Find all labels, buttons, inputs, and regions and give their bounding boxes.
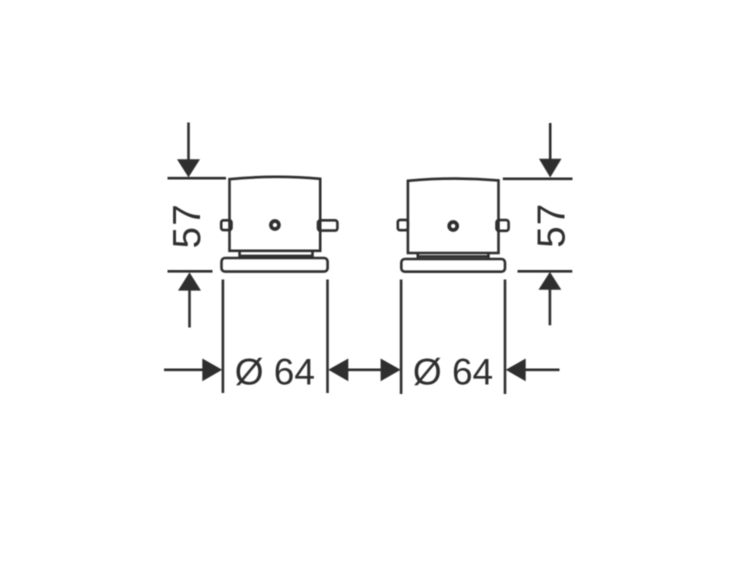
svg-text:Ø 64: Ø 64 bbox=[413, 352, 493, 393]
right handle neck left bbox=[416, 253, 419, 259]
left bottom arrow line bbox=[188, 290, 191, 328]
right handle neck bottom bbox=[418, 255, 489, 258]
left handle body bbox=[230, 177, 321, 251]
left top extension line bbox=[168, 177, 227, 180]
left handle neck left bbox=[238, 251, 241, 259]
svg-text:57: 57 bbox=[531, 203, 574, 248]
right top arrow line bbox=[549, 123, 552, 161]
right handle center dot bbox=[449, 222, 457, 230]
svg-text:Ø 64: Ø 64 bbox=[235, 352, 315, 393]
right handle body bbox=[408, 179, 499, 253]
left handle left tab bbox=[221, 220, 231, 230]
right handle right tab bbox=[497, 220, 509, 231]
right outer arrow line bbox=[525, 368, 560, 371]
middle right arrow head bbox=[381, 359, 401, 382]
left handle base plate bbox=[222, 258, 328, 272]
middle arrow line bbox=[347, 368, 382, 371]
right top extension line bbox=[503, 178, 573, 181]
right outer arrow head bbox=[506, 359, 526, 382]
left plate left extension line bbox=[222, 280, 225, 394]
left outer arrow head bbox=[202, 359, 222, 382]
right bottom extension line bbox=[518, 270, 573, 273]
left top arrow head bbox=[177, 159, 200, 177]
right bottom arrow line bbox=[549, 289, 552, 325]
left top arrow line bbox=[187, 123, 190, 162]
left handle center dot bbox=[271, 221, 279, 229]
middle left arrow head bbox=[328, 359, 348, 382]
left bottom arrow head bbox=[178, 272, 201, 290]
left outer arrow line bbox=[164, 368, 204, 371]
right handle left tab bbox=[398, 220, 408, 230]
right plate left extension line bbox=[400, 280, 403, 395]
right handle neck right bbox=[487, 253, 490, 259]
left handle neck bottom bbox=[240, 255, 313, 258]
right plate right extension line bbox=[504, 280, 507, 395]
left handle neck right bbox=[311, 251, 314, 259]
left bottom extension line bbox=[168, 270, 213, 273]
left plate right extension line bbox=[326, 280, 329, 394]
right bottom arrow head bbox=[539, 272, 562, 290]
svg-text:57: 57 bbox=[166, 203, 209, 248]
right top arrow head bbox=[539, 159, 562, 178]
right handle base plate bbox=[401, 259, 505, 272]
left handle right tab bbox=[318, 220, 337, 230]
